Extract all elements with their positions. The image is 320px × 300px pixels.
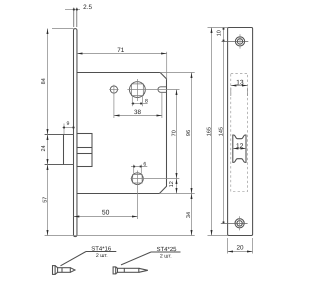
ext lines for 20 dim [227,238,229,254]
top screw hole inner [237,39,242,44]
ext line plate top left (for 165/10) [208,27,228,29]
dim 96 [191,73,193,194]
svg-text:9: 9 [66,121,69,127]
dim 20 [228,251,253,253]
svg-text:24: 24 [41,145,47,151]
centerline vertical spindle hole [136,79,138,101]
lower hole square 6mm [133,174,142,183]
dim 12 (body bottom) [176,179,178,194]
dim 13 [231,85,248,87]
ext line 38 right from slot [161,93,163,118]
centerline vertical lower hole down to 50-dim [137,171,139,220]
svg-text:57: 57 [42,197,48,203]
svg-text:12: 12 [169,181,175,187]
lower square hole circle [132,173,144,185]
dim 165 [211,28,213,236]
bottom screw hole outer [235,219,244,228]
faceplate front view [228,28,253,236]
ext line body top right (for 96) [160,72,195,74]
screw 1 shaft [58,268,71,273]
top hole centerlines [222,41,249,43]
screw 1 leader [61,252,87,266]
svg-text:84: 84 [41,78,47,84]
svg-text:10: 10 [217,30,223,36]
svg-text:38: 38 [134,109,142,116]
dim 145 [223,42,225,224]
dim 6 [131,166,147,168]
dashed cutout region [231,73,248,191]
screw 2 tip [139,268,148,272]
svg-text:6: 6 [143,162,146,168]
svg-text:ST4*16: ST4*16 [91,245,112,252]
dim 70 [176,90,178,179]
svg-text:71: 71 [117,47,125,54]
svg-text:2 шт.: 2 шт. [96,253,108,259]
svg-text:12: 12 [236,143,244,150]
dim 10 [223,28,225,42]
latch mechanism box inside body [77,134,92,167]
spindle square 8mm [132,84,144,96]
svg-text:145: 145 [218,127,224,136]
lock body outline [77,73,167,194]
ext lines for 8-dim below spindle square [131,95,133,106]
svg-text:165: 165 [206,127,212,136]
top mounting hole (small circle) [110,86,117,93]
spindle hole circle [130,82,146,98]
screw 1 neck cone [55,266,58,275]
latch bolt top edge [45,134,74,136]
dim 8 [131,103,147,105]
screw 2 thread line [123,268,125,272]
dim 71 [77,53,167,55]
mechanism divider 2 [77,153,92,155]
latch bevel line [63,135,65,165]
bottom screw hole inner [237,221,242,226]
svg-text:2.5: 2.5 [83,4,92,11]
ext line plate bottom left (for 165) [208,235,228,237]
screw 2 label underline [151,251,181,253]
ext line plate top left (for 84) [52,28,74,30]
slot hole at body right edge [158,87,166,93]
svg-text:50: 50 [102,210,110,217]
dim 50 [74,216,138,218]
ext line right of 71 [166,52,168,80]
svg-text:70: 70 [171,130,177,136]
screw 2 leader [121,252,151,265]
screw 2 head [113,267,116,274]
screw 1 label underline [86,251,116,253]
dim 2.5 [65,9,80,11]
deadbolt cutout with concave ends [233,135,246,162]
latch bolt bottom edge [45,164,74,166]
svg-text:96: 96 [186,130,192,136]
svg-text:ST4*25: ST4*25 [156,246,177,253]
screw 1 tip [70,268,75,273]
faceplate (side view, main view) [74,29,77,237]
svg-text:2 шт.: 2 шт. [160,253,172,259]
dim 12 (deadbolt cutout) [233,148,246,150]
dim 57 [47,165,49,236]
dim 24 [47,135,49,165]
svg-text:20: 20 [236,245,244,252]
screw 1 head [53,266,56,275]
ext line 38 left from small hole [113,94,115,119]
svg-text:34: 34 [186,212,192,218]
ext line for 9-dim at latch corner [63,124,65,135]
svg-text:13: 13 [236,79,244,86]
screw 2 neck cone [116,267,118,274]
small hole crosshair [109,89,119,91]
centerline horizontal lower hole [131,178,180,180]
ext line body bottom right (for 12/96) [159,193,194,195]
ext lines for 6-dim above lower square [133,165,135,175]
dim 9 [62,127,75,129]
centerline horizontal through spindle hole to slot [127,89,179,91]
screw 2 shaft [118,268,139,272]
svg-text:8: 8 [145,99,148,105]
screw 1 thread line [61,268,63,273]
ext lines for 13 dim [230,88,232,97]
dim 84 [47,29,49,135]
dim 34 [191,194,193,236]
bottom hole centerlines [221,223,248,225]
top screw hole outer [235,37,244,46]
dim 38 [114,115,162,117]
ext line plate bottom long (for 57/34) [45,235,195,237]
ext lines above plate for 2.5 [73,8,75,27]
mechanism divider 1 [77,147,92,149]
